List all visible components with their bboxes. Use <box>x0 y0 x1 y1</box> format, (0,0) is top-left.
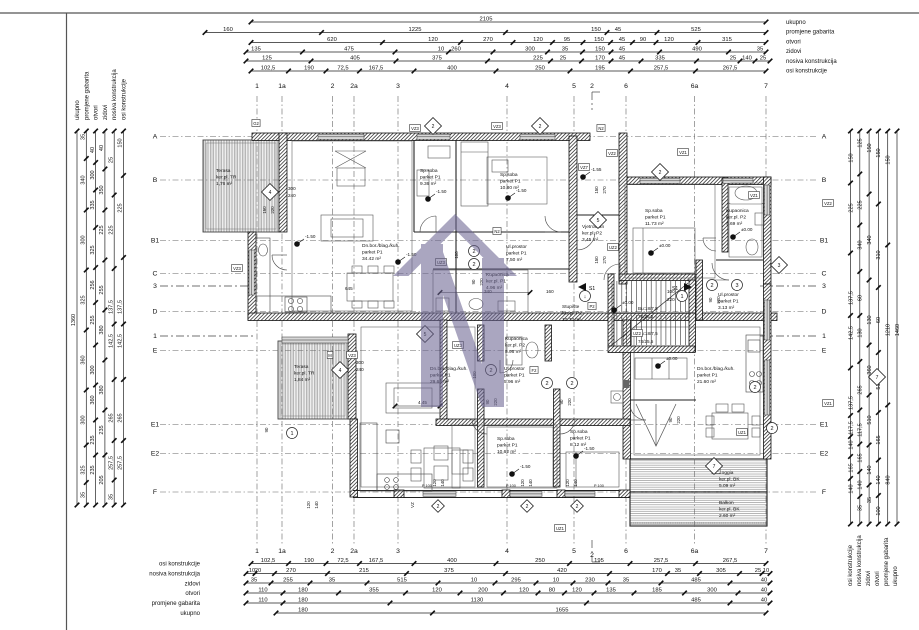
inner dim line 340 bathroom <box>438 290 533 295</box>
svg-text:150: 150 <box>848 153 854 162</box>
svg-text:140: 140 <box>742 56 752 62</box>
bottom wall pier 4 <box>619 490 630 498</box>
svg-text:25: 25 <box>730 56 736 62</box>
svg-text:160: 160 <box>546 289 554 294</box>
svg-text:E: E <box>822 348 827 355</box>
svg-text:190: 190 <box>304 66 314 72</box>
room label Dn.bor 21.60 <box>697 366 735 385</box>
svg-text:10: 10 <box>438 47 444 53</box>
svg-text:1: 1 <box>680 294 683 300</box>
svg-text:380: 380 <box>99 325 105 334</box>
svg-text:6a: 6a <box>691 83 699 90</box>
svg-text:270: 270 <box>286 568 296 574</box>
room label Terasa 1,76 <box>216 168 237 187</box>
svg-text:100: 100 <box>667 289 675 294</box>
svg-text:Sp.soba: Sp.soba <box>500 172 518 178</box>
svg-text:A: A <box>153 134 158 141</box>
right dimension chain otvori <box>876 129 882 527</box>
svg-text:6a: 6a <box>691 548 699 555</box>
svg-text:380: 380 <box>99 385 105 394</box>
room label Loggia <box>719 470 740 489</box>
room label Dn.bor 34.42 <box>362 243 400 262</box>
left dimension chain otvori <box>90 129 98 508</box>
svg-text:1130: 1130 <box>471 598 483 604</box>
svg-text:490: 490 <box>692 47 702 53</box>
svg-text:1,76 m²: 1,76 m² <box>216 181 233 187</box>
wall axis 6 lower <box>623 320 631 459</box>
closet room 9.36 <box>417 146 450 196</box>
svg-text:117,5: 117,5 <box>848 421 854 434</box>
bottom dimension chain osi konstrukcije <box>249 558 769 566</box>
svg-text:35: 35 <box>81 492 87 498</box>
svg-text:4: 4 <box>505 83 509 90</box>
svg-text:VZ3: VZ3 <box>411 126 419 131</box>
room label Sp.soba 8.12 <box>570 429 591 448</box>
svg-text:7: 7 <box>764 83 768 90</box>
svg-text:95: 95 <box>564 37 570 43</box>
circled numbers <box>287 246 778 439</box>
svg-text:5.09 m²: 5.09 m² <box>719 483 736 489</box>
svg-text:300: 300 <box>707 588 717 594</box>
room outline living upper <box>292 141 412 311</box>
svg-text:osi konstrukcije: osi konstrukcije <box>848 544 854 586</box>
svg-text:ukupno: ukupno <box>893 566 899 586</box>
dark block column <box>623 380 630 388</box>
svg-text:405: 405 <box>350 56 360 62</box>
svg-text:-1.55: -1.55 <box>591 167 602 172</box>
svg-text:120: 120 <box>519 588 529 594</box>
svg-text:2: 2 <box>710 283 713 289</box>
svg-text:osi konstrukcije: osi konstrukcije <box>122 78 128 120</box>
svg-text:165: 165 <box>876 435 882 444</box>
svg-text:1a: 1a <box>278 83 286 90</box>
svg-text:±0.00: ±0.00 <box>666 356 678 361</box>
kitchen right wall counter <box>746 335 763 392</box>
wall axis 5 upper <box>569 136 577 282</box>
left dimension chain nosiva konstrukcija <box>108 129 116 508</box>
svg-text:2.60 m²: 2.60 m² <box>719 513 736 519</box>
svg-text:35: 35 <box>858 505 864 511</box>
svg-text:Dn.bor./blag./kuh.: Dn.bor./blag./kuh. <box>362 243 400 249</box>
svg-text:parket P1: parket P1 <box>645 214 666 220</box>
window openings bottom and side walls <box>249 185 770 496</box>
bathroom center fixtures <box>433 270 528 313</box>
svg-text:142,5: 142,5 <box>118 334 124 348</box>
svg-text:P 100: P 100 <box>594 484 604 488</box>
svg-text:2: 2 <box>753 385 756 391</box>
svg-text:80: 80 <box>549 588 555 594</box>
svg-text:45: 45 <box>619 37 625 43</box>
svg-text:zidovi: zidovi <box>185 581 200 587</box>
staircase treads <box>612 281 690 345</box>
room outline bedroom 10.80 <box>487 157 547 204</box>
svg-text:2: 2 <box>331 548 335 555</box>
wall axis mid lower <box>440 320 447 423</box>
svg-text:265: 265 <box>118 413 124 422</box>
svg-text:90: 90 <box>708 297 713 302</box>
svg-text:340: 340 <box>858 240 864 249</box>
svg-text:140: 140 <box>848 440 854 449</box>
svg-text:102,5: 102,5 <box>261 558 276 564</box>
svg-text:F: F <box>822 489 826 496</box>
svg-text:VZ3: VZ3 <box>348 353 356 358</box>
top dimension chain promjene gabarita <box>203 27 769 35</box>
svg-text:VZ1: VZ1 <box>679 150 687 155</box>
svg-text:256: 256 <box>90 280 96 289</box>
svg-text:VZ3: VZ3 <box>233 266 241 271</box>
svg-text:2: 2 <box>570 381 573 387</box>
svg-text:40: 40 <box>761 578 767 584</box>
svg-text:±0.00: ±0.00 <box>659 243 671 248</box>
svg-text:220: 220 <box>667 297 675 302</box>
svg-text:1: 1 <box>255 548 259 555</box>
svg-text:90: 90 <box>640 37 646 43</box>
svg-text:4: 4 <box>505 548 509 555</box>
svg-text:2: 2 <box>590 83 594 90</box>
svg-text:otvori: otvori <box>185 591 200 597</box>
bottom left chain labels <box>149 562 200 618</box>
svg-text:UZ1: UZ1 <box>738 430 747 435</box>
svg-text:2a: 2a <box>350 548 358 555</box>
room label Balkon <box>719 500 740 519</box>
top exterior wall upper block <box>252 133 590 141</box>
svg-text:120: 120 <box>428 37 438 43</box>
svg-text:Terasa: Terasa <box>294 364 309 370</box>
svg-text:±0.00: ±0.00 <box>741 227 753 232</box>
svg-text:90: 90 <box>559 399 564 404</box>
bottom wall pier 2 <box>502 490 510 498</box>
svg-text:150: 150 <box>262 206 267 214</box>
svg-text:225: 225 <box>848 203 854 212</box>
svg-text:220: 220 <box>716 296 721 304</box>
svg-text:200: 200 <box>478 588 488 594</box>
svg-text:40: 40 <box>90 147 96 153</box>
svg-text:Sp.soba: Sp.soba <box>497 436 515 442</box>
top dimension chain nosiva konstrukcija <box>244 56 773 64</box>
svg-text:25: 25 <box>760 56 766 62</box>
svg-text:72,5: 72,5 <box>337 558 348 564</box>
svg-text:VZ: VZ <box>410 502 415 508</box>
right dimension chain promjene gabarita <box>885 129 891 527</box>
top right chain labels <box>786 20 837 75</box>
svg-text:A: A <box>822 134 827 141</box>
svg-text:257,5: 257,5 <box>654 558 669 564</box>
room inner outline 10.62 <box>487 427 553 487</box>
terrace Terasa 1,76 upper left <box>203 140 279 232</box>
svg-text:300: 300 <box>81 415 87 424</box>
svg-text:2: 2 <box>659 170 662 176</box>
svg-text:255: 255 <box>283 578 293 584</box>
window openings top wall <box>318 134 753 183</box>
svg-text:N2: N2 <box>494 229 500 234</box>
svg-text:205: 205 <box>99 475 105 484</box>
right dimension chain zidovi <box>867 129 873 527</box>
svg-text:UZ1: UZ1 <box>556 526 565 531</box>
svg-text:72,5: 72,5 <box>337 66 348 72</box>
bottom dimension chain zidovi <box>244 578 773 586</box>
door number diamonds <box>262 118 886 475</box>
svg-text:Loggia: Loggia <box>719 470 734 476</box>
svg-text:225: 225 <box>118 203 124 212</box>
axis grid vertical dashed lines <box>257 96 766 545</box>
svg-text:265: 265 <box>858 385 864 394</box>
svg-text:nosiva konstrukcija: nosiva konstrukcija <box>786 59 837 65</box>
svg-text:C: C <box>153 271 158 278</box>
wall bedroom 8.12 left <box>554 389 561 487</box>
right exterior wall upper <box>764 177 772 284</box>
svg-text:120: 120 <box>306 501 311 509</box>
svg-text:485: 485 <box>691 578 701 584</box>
svg-text:2: 2 <box>331 83 335 90</box>
svg-text:74/25,5: 74/25,5 <box>638 314 654 319</box>
watermark letter N <box>393 214 517 407</box>
svg-text:90: 90 <box>264 427 269 432</box>
top dimension chain ukupno 2105 <box>249 17 769 25</box>
bottom dimension chain nosiva konstrukcija <box>244 568 773 576</box>
svg-text:VZ2: VZ2 <box>824 201 832 206</box>
svg-text:nosiva konstrukcija: nosiva konstrukcija <box>857 535 863 586</box>
svg-text:10.62 m²: 10.62 m² <box>497 449 516 455</box>
svg-text:B: B <box>153 177 158 184</box>
svg-text:E2: E2 <box>820 451 829 458</box>
svg-text:parket P1: parket P1 <box>420 174 441 180</box>
svg-text:P2: P2 <box>589 304 595 309</box>
svg-text:F: F <box>153 489 157 496</box>
svg-text:Bu:18/7,5: Bu:18/7,5 <box>638 306 658 311</box>
svg-text:137,5: 137,5 <box>848 396 854 410</box>
svg-text:35: 35 <box>867 497 873 503</box>
svg-text:190: 190 <box>304 558 314 564</box>
central horizontal wall axis D <box>248 313 777 321</box>
svg-text:40: 40 <box>99 145 105 151</box>
room label Kupaonica 4.96 <box>486 272 509 291</box>
svg-text:Dn.bor./blag./kuh.: Dn.bor./blag./kuh. <box>697 366 735 372</box>
svg-text:9.36 m²: 9.36 m² <box>420 181 437 187</box>
svg-text:35: 35 <box>81 134 87 140</box>
svg-text:257,5: 257,5 <box>118 456 124 470</box>
left dimension chain zidovi <box>99 129 107 508</box>
svg-text:ker.pl. TR: ker.pl. TR <box>216 174 237 180</box>
balcony railing <box>630 523 767 526</box>
svg-text:360: 360 <box>81 355 87 364</box>
svg-text:3: 3 <box>396 83 400 90</box>
wall axis 6 upper <box>619 133 627 284</box>
svg-text:3: 3 <box>153 283 157 290</box>
svg-text:ker.pl. P2: ker.pl. P2 <box>582 230 602 236</box>
sheet frame left line <box>66 13 68 630</box>
svg-text:120: 120 <box>565 479 570 487</box>
svg-text:140: 140 <box>573 479 578 487</box>
svg-text:B1: B1 <box>820 238 829 245</box>
svg-text:2105: 2105 <box>480 17 493 23</box>
axis letter labels right <box>820 134 829 497</box>
loggia hatched <box>630 459 767 492</box>
svg-text:335: 335 <box>655 56 665 62</box>
svg-text:180: 180 <box>298 588 308 594</box>
svg-text:C: C <box>822 271 827 278</box>
svg-text:20: 20 <box>255 568 261 574</box>
level markers <box>294 167 753 477</box>
svg-text:P 100: P 100 <box>506 484 516 488</box>
svg-text:3: 3 <box>778 263 781 269</box>
svg-text:7: 7 <box>764 548 768 555</box>
inner dim line 4,45 terrace2 <box>393 404 443 409</box>
svg-text:420: 420 <box>557 568 567 574</box>
svg-text:parket P1: parket P1 <box>697 372 718 378</box>
svg-text:120: 120 <box>533 37 543 43</box>
svg-text:10: 10 <box>763 568 769 574</box>
rotated inner dims <box>262 186 721 509</box>
room label Ul.prostor 5.96 <box>504 366 525 385</box>
svg-text:35: 35 <box>757 47 763 53</box>
stair right wall <box>689 280 696 352</box>
svg-text:250: 250 <box>535 66 545 72</box>
svg-text:485: 485 <box>691 598 701 604</box>
svg-text:150: 150 <box>594 37 604 43</box>
svg-text:140: 140 <box>528 479 533 487</box>
svg-text:4.69 m²: 4.69 m² <box>726 221 743 227</box>
svg-text:45: 45 <box>619 56 625 62</box>
room label Sp.soba 9.36 <box>420 168 441 187</box>
svg-text:10: 10 <box>553 578 559 584</box>
room outline right apartment <box>634 327 760 455</box>
svg-text:5: 5 <box>572 83 576 90</box>
svg-text:2: 2 <box>472 262 475 268</box>
svg-text:ker.pl. TR: ker.pl. TR <box>294 370 315 376</box>
svg-text:510: 510 <box>867 415 873 424</box>
svg-text:325: 325 <box>90 245 96 254</box>
svg-text:↓: ↓ <box>584 294 587 300</box>
svg-text:375: 375 <box>432 56 442 62</box>
room label Sp.soba 10.80 <box>500 172 521 191</box>
svg-text:215: 215 <box>359 568 369 574</box>
svg-text:267,5: 267,5 <box>723 558 738 564</box>
svg-text:VZ3: VZ3 <box>493 124 501 129</box>
svg-text:1: 1 <box>153 333 157 340</box>
svg-text:ker.pl. BK: ker.pl. BK <box>719 506 740 512</box>
svg-text:3: 3 <box>396 548 400 555</box>
right exterior wall lower <box>764 284 772 459</box>
svg-text:2: 2 <box>576 504 579 510</box>
wall terrace2 right <box>348 334 356 419</box>
svg-text:335: 335 <box>90 200 96 209</box>
room label Ul.prostor 3.13 <box>718 292 739 311</box>
terrace Terasa 1,84 lower left <box>278 341 348 419</box>
svg-text:25: 25 <box>108 157 114 163</box>
svg-text:140: 140 <box>876 475 882 484</box>
svg-text:60: 60 <box>876 317 882 323</box>
svg-text:102,5: 102,5 <box>261 66 276 72</box>
svg-text:parket P1: parket P1 <box>718 298 739 304</box>
svg-text:525: 525 <box>691 27 701 33</box>
right chain labels rotated <box>848 535 899 586</box>
bottom exterior wall thin lines <box>353 491 630 498</box>
svg-text:140: 140 <box>440 479 445 487</box>
svg-text:300: 300 <box>81 235 87 244</box>
svg-text:Ul.prostor: Ul.prostor <box>504 366 525 372</box>
element tags <box>232 120 834 532</box>
svg-text:E1: E1 <box>151 422 160 429</box>
svg-text:167,5: 167,5 <box>369 66 384 72</box>
sheet frame top line <box>0 12 919 14</box>
svg-text:parket P1: parket P1 <box>362 249 383 255</box>
svg-text:5.96 m²: 5.96 m² <box>504 379 521 385</box>
bed room 10.80 <box>461 142 508 206</box>
bed room 8.12 <box>566 452 619 487</box>
kitchen counters upper <box>256 238 331 313</box>
svg-text:117,5: 117,5 <box>858 423 864 436</box>
svg-text:7: 7 <box>713 464 716 470</box>
svg-text:140: 140 <box>867 465 873 474</box>
pendant lamp sketch <box>335 151 366 186</box>
room label Ul.prostor 7.50 <box>506 244 527 263</box>
svg-text:45: 45 <box>615 27 621 33</box>
sofa lower living <box>386 383 440 413</box>
left chain labels rotated <box>75 69 128 120</box>
svg-text:6: 6 <box>624 548 628 555</box>
svg-text:40: 40 <box>761 598 767 604</box>
sofa below stairs right apartment <box>635 358 687 379</box>
svg-text:-1.50: -1.50 <box>520 464 531 469</box>
svg-text:parket P1: parket P1 <box>500 178 521 184</box>
room label Sp.soba 10.62 <box>497 436 518 455</box>
svg-text:-1.50: -1.50 <box>436 189 447 194</box>
svg-text:1360: 1360 <box>71 314 77 326</box>
svg-text:340: 340 <box>867 235 873 244</box>
svg-text:150: 150 <box>591 27 601 33</box>
svg-text:515: 515 <box>397 578 407 584</box>
svg-text:4: 4 <box>339 368 342 374</box>
wall kupaonica right <box>722 178 728 252</box>
svg-text:267,5: 267,5 <box>723 66 738 72</box>
svg-text:promjene gabarita: promjene gabarita <box>152 601 201 607</box>
svg-text:150: 150 <box>118 138 124 147</box>
svg-text:Kupaonica: Kupaonica <box>505 336 528 342</box>
svg-text:90: 90 <box>668 417 673 422</box>
svg-text:295: 295 <box>511 578 521 584</box>
wall ul.prostor right <box>696 260 703 320</box>
svg-text:235: 235 <box>90 435 96 444</box>
svg-text:120: 120 <box>520 479 525 487</box>
axis grid horizontal dashed lines <box>160 137 818 493</box>
svg-text:ukupno: ukupno <box>180 611 200 617</box>
svg-text:UZ2: UZ2 <box>633 331 642 336</box>
svg-text:E: E <box>153 348 158 355</box>
svg-text:ker.pl. P2: ker.pl. P2 <box>562 310 582 316</box>
svg-text:G2: G2 <box>253 121 259 126</box>
svg-text:2: 2 <box>472 249 475 255</box>
dining table upper <box>347 266 394 308</box>
svg-text:2: 2 <box>545 381 548 387</box>
svg-text:375: 375 <box>444 568 454 574</box>
svg-text:nosiva konstrukcija: nosiva konstrukcija <box>112 69 118 120</box>
svg-text:VZ1: VZ1 <box>750 193 758 198</box>
svg-text:300: 300 <box>288 186 296 191</box>
svg-text:137,5: 137,5 <box>848 291 854 305</box>
svg-text:25: 25 <box>560 56 566 62</box>
svg-text:120: 120 <box>572 588 582 594</box>
svg-text:35: 35 <box>675 568 681 574</box>
svg-text:220: 220 <box>567 398 572 406</box>
svg-text:Sp.soba: Sp.soba <box>570 429 588 435</box>
svg-text:45: 45 <box>619 47 625 53</box>
svg-text:1a: 1a <box>278 548 286 555</box>
svg-text:140: 140 <box>858 480 864 489</box>
svg-text:270: 270 <box>483 37 493 43</box>
svg-text:130: 130 <box>858 328 864 337</box>
svg-text:N2: N2 <box>598 126 604 131</box>
svg-text:10.73 m²: 10.73 m² <box>562 317 581 323</box>
